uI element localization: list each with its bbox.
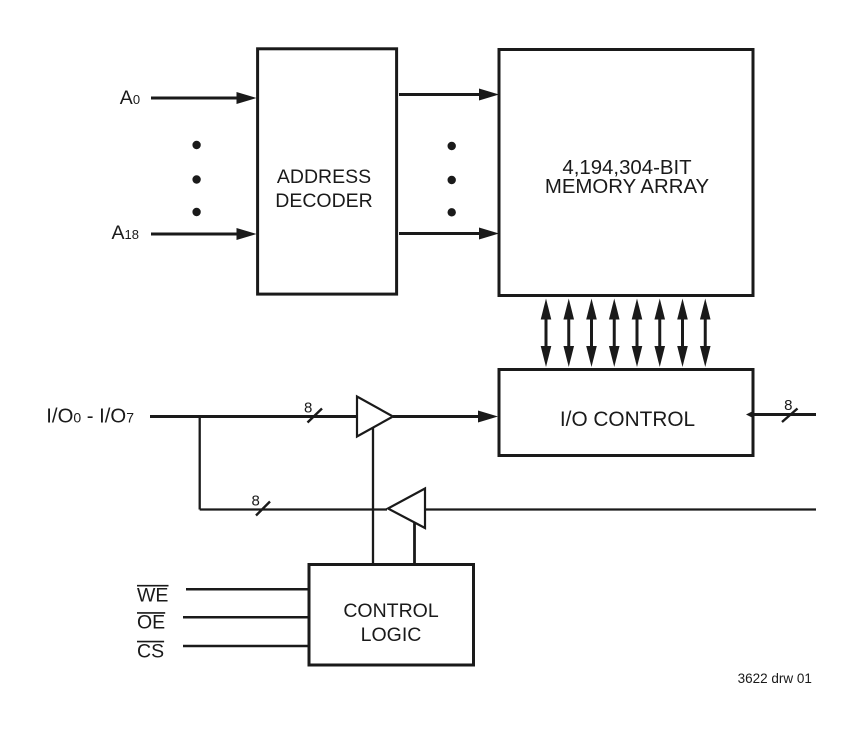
- svg-text:I/O0 - I/O7: I/O0 - I/O7: [46, 406, 134, 428]
- svg-text:WE: WE: [137, 585, 168, 607]
- svg-text:CS: CS: [137, 640, 164, 662]
- svg-text:OE: OE: [137, 612, 165, 634]
- svg-text:8: 8: [304, 400, 312, 417]
- svg-text:DECODER: DECODER: [275, 190, 373, 212]
- svg-text:I/O CONTROL: I/O CONTROL: [560, 408, 695, 431]
- svg-text:MEMORY ARRAY: MEMORY ARRAY: [545, 176, 710, 198]
- svg-text:ADDRESS: ADDRESS: [277, 166, 371, 188]
- svg-text:8: 8: [252, 493, 260, 510]
- svg-text:CONTROL: CONTROL: [343, 600, 438, 622]
- svg-text:8: 8: [784, 397, 792, 414]
- svg-text:LOGIC: LOGIC: [361, 624, 422, 646]
- svg-text:3622 drw 01: 3622 drw 01: [738, 671, 812, 686]
